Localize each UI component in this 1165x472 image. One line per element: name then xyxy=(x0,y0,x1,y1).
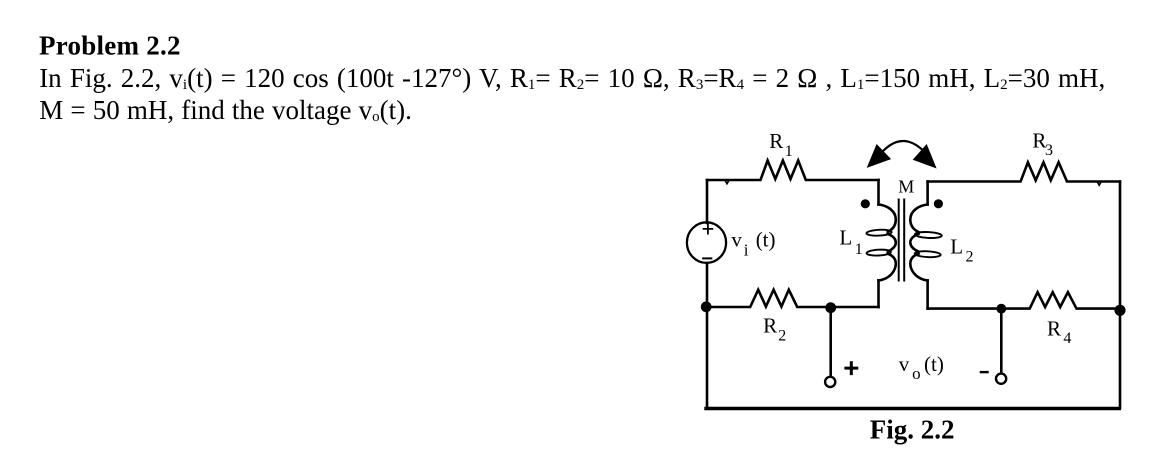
svg-text:1: 1 xyxy=(855,241,863,258)
svg-text:R: R xyxy=(763,314,777,338)
svg-text:In Fig. 2.2, vi(t) = 120 cos (: In Fig. 2.2, vi(t) = 120 cos (100t -127°… xyxy=(39,63,1105,93)
svg-text:v: v xyxy=(899,352,910,376)
svg-text:(t): (t) xyxy=(756,228,776,252)
svg-text:Problem 2.2: Problem 2.2 xyxy=(39,31,181,61)
svg-text:1: 1 xyxy=(785,143,793,160)
svg-text:L: L xyxy=(839,226,852,250)
svg-text:v: v xyxy=(731,228,742,252)
svg-text:i: i xyxy=(744,240,749,259)
svg-text:M = 50 mH, find the voltage vo: M = 50 mH, find the voltage vo(t). xyxy=(39,95,412,125)
svg-text:3: 3 xyxy=(1045,142,1053,159)
svg-text:M: M xyxy=(898,177,914,197)
svg-text:R: R xyxy=(1047,317,1061,341)
svg-text:2: 2 xyxy=(966,248,974,265)
svg-text:2: 2 xyxy=(778,328,786,345)
svg-text:R: R xyxy=(769,129,783,153)
svg-text:(t): (t) xyxy=(924,352,944,376)
svg-text:Fig. 2.2: Fig. 2.2 xyxy=(870,414,955,444)
svg-text:L: L xyxy=(950,234,963,258)
svg-text:4: 4 xyxy=(1063,330,1071,347)
svg-text:o: o xyxy=(912,364,921,383)
